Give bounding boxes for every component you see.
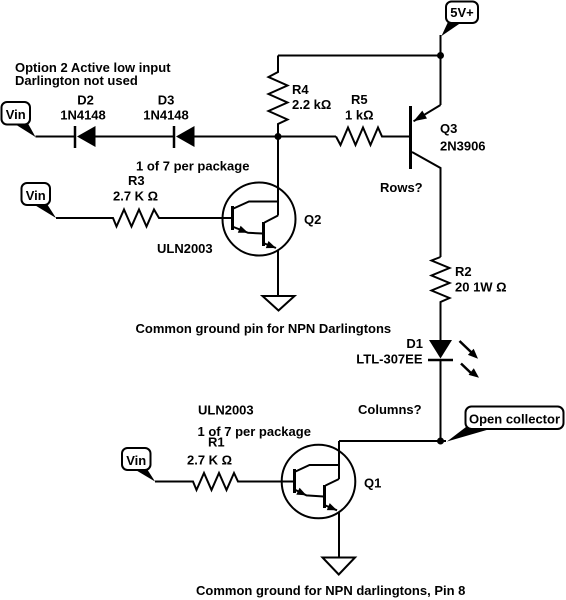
svg-text:Q2: Q2 [304,212,321,227]
junction dot at 5V+ node [437,52,444,59]
svg-text:2N3906: 2N3906 [440,139,486,154]
wire D1 to output node [440,361,442,441]
svg-text:LTL-307EE: LTL-307EE [356,351,423,366]
power flag 5V+ [442,2,479,37]
wire D2 to D3 [96,136,174,138]
note: Option 2 Active low input / Darlington not used [15,60,171,88]
svg-text:5V+: 5V+ [450,5,474,20]
wire output node horizontal [339,440,446,442]
svg-text:ULN2003: ULN2003 [198,403,254,418]
svg-text:Common ground for NPN darlingt: Common ground for NPN darlingtons, Pin 8 [196,583,465,598]
svg-text:Common ground pin for NPN Darl: Common ground pin for NPN Darlingtons [136,321,392,336]
resistor R5 1 kOhm [336,92,409,145]
resistor R2 20 1W Ohm [432,257,507,340]
svg-text:20 1W Ω: 20 1W Ω [455,280,507,295]
darlington Q1 ULN2003 circle [282,445,356,519]
svg-text:Q1: Q1 [364,475,381,490]
LED D1 LTL-307EE [356,336,479,378]
svg-text:2.7 K Ω: 2.7 K Ω [113,188,158,203]
resistor R1 2.7 K Ohm [155,435,293,491]
wire 5V+ to junction and Q3 emitter [440,35,442,105]
svg-text:1 kΩ: 1 kΩ [345,108,374,123]
svg-text:R4: R4 [292,82,309,97]
svg-text:Darlington not used: Darlington not used [15,73,138,88]
wire Vin to D2 [36,136,75,138]
svg-text:Vin: Vin [6,107,26,122]
svg-text:Columns?: Columns? [358,402,422,417]
ground (Q1) [323,558,356,575]
darlington Q2 ULN2003 circle [223,183,296,256]
svg-text:Vin: Vin [26,188,46,203]
svg-text:Rows?: Rows? [380,180,423,195]
net label Vin (top input) [2,102,36,137]
wire Q2 emitter to ground [277,250,279,297]
net label Open collector [447,407,564,442]
svg-text:1 of 7 per package: 1 of 7 per package [136,159,249,174]
wire Q1 emitter to ground [338,512,340,558]
svg-text:2.7 K Ω: 2.7 K Ω [187,452,232,467]
svg-text:R5: R5 [351,92,368,107]
wire D3 to node A [195,136,337,138]
Q2 inner transistor T1 [233,202,279,234]
svg-text:Q3: Q3 [440,121,457,136]
svg-text:R3: R3 [128,173,145,188]
wire Q1 collector rail [338,441,340,479]
junction dot node A [275,133,282,140]
svg-text:D2: D2 [77,93,94,108]
svg-text:ULN2003: ULN2003 [157,241,213,256]
svg-text:2.2 kΩ: 2.2 kΩ [292,97,331,112]
diode D3 1N4148 [143,93,194,149]
resistor R3 2.7 K Ohm [56,173,231,227]
wire Q2 collector rail [277,137,279,216]
junction dot output node [437,438,444,445]
net label Vin (Q2 input) [22,183,57,218]
svg-text:Vin: Vin [126,453,146,468]
svg-text:R1: R1 [208,435,225,450]
Q1 inner transistor T2 [325,479,340,510]
svg-text:D3: D3 [158,93,175,108]
wire top rail R4 to 5V+ [278,55,441,57]
svg-text:R2: R2 [455,264,472,279]
diode D2 1N4148 [60,93,106,149]
resistor R4 2.2 kOhm [269,56,332,137]
svg-text:D1: D1 [406,336,423,351]
ground (Q2) [263,296,295,311]
svg-text:Open collector: Open collector [469,411,560,426]
net label Vin (Q1 input) [122,448,155,482]
svg-text:1N4148: 1N4148 [143,108,189,123]
Q1 inner transistor T1 [295,465,340,497]
svg-text:1N4148: 1N4148 [60,108,106,123]
transistor Q3 2N3906 (PNP) [411,105,486,257]
Q2 inner transistor T2 [264,216,279,249]
